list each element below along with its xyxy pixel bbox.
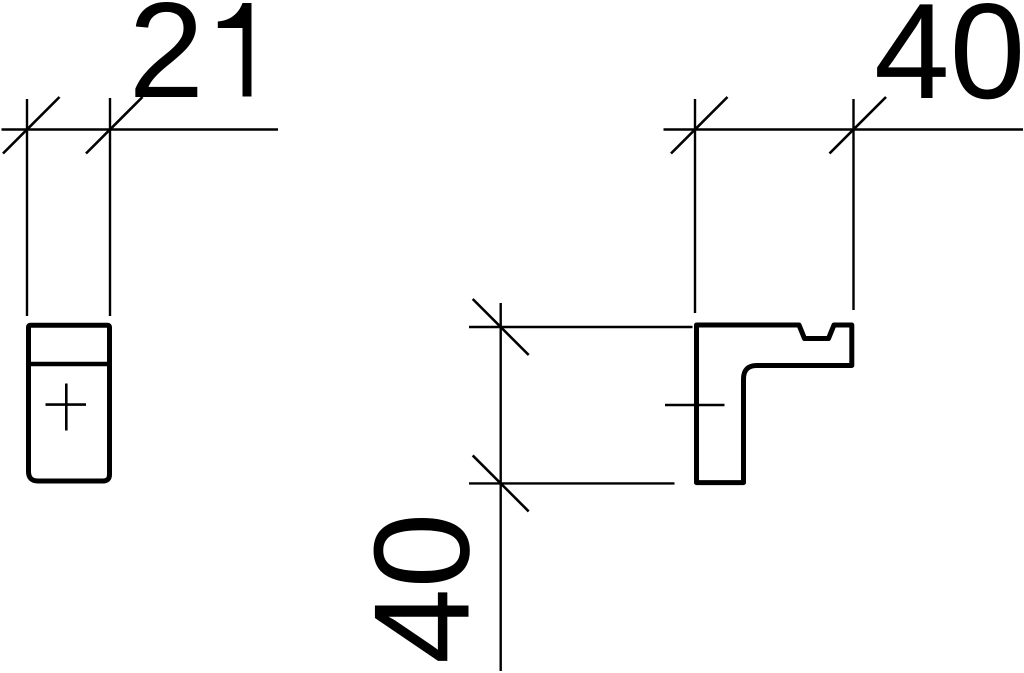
extension line left of 21 [26, 99, 28, 316]
front view body outline [29, 325, 110, 481]
tick slash bottom of vertical 40 [473, 455, 529, 511]
tick slash right of 40 [830, 97, 887, 154]
extension line right of 40 [852, 99, 854, 310]
dimension line 40 top right [664, 128, 1024, 130]
mounting hole cross vertical [65, 384, 68, 431]
tick slash left of 40 [671, 97, 728, 154]
side view mounting mark [665, 404, 725, 406]
mounting hole cross horizontal [46, 403, 87, 406]
side view hook profile [697, 325, 852, 483]
dimension line 21 [2, 128, 279, 130]
dimension text 21 digit 1 [218, 3, 252, 97]
svg-text:2: 2 [129, 0, 205, 126]
tick slash right of 21 [86, 97, 143, 154]
vertical dimension line 40 [500, 303, 502, 671]
extension line top of vertical 40 [469, 326, 693, 328]
extension line left of 40 [694, 99, 696, 313]
tick slash left of 21 [3, 97, 60, 154]
svg-text:40: 40 [346, 513, 498, 664]
front view divider line [29, 362, 110, 367]
extension line bottom of vertical 40 [469, 482, 675, 484]
svg-text:40: 40 [874, 0, 1024, 127]
tick slash top of vertical 40 [473, 299, 529, 355]
extension line right of 21 [109, 98, 111, 316]
